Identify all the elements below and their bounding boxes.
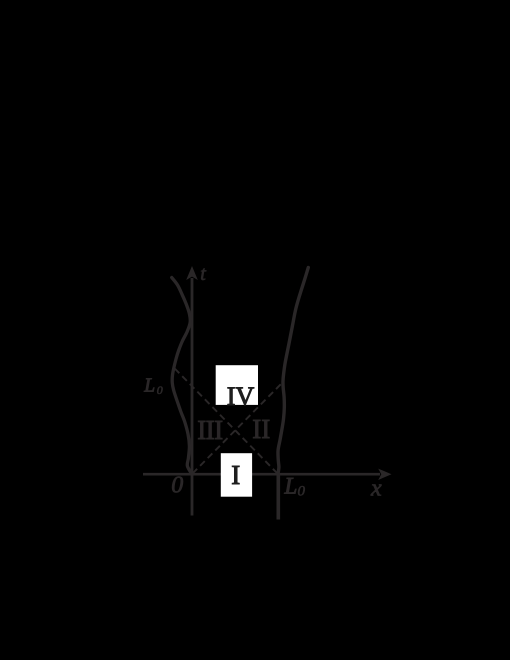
white box behind I (221, 453, 252, 497)
svg-text:0: 0 (298, 484, 306, 500)
svg-text:IV: IV (227, 382, 255, 411)
svg-text:0: 0 (157, 383, 163, 397)
svg-text:II: II (252, 414, 270, 444)
right worldline (wavy curve from L0) (278, 268, 308, 475)
wire: right end worldline tick below axis (276, 474, 280, 520)
x-axis (143, 469, 392, 480)
left worldline (wavy curve from origin) (172, 278, 193, 475)
dashed diagonal from origin to right worldline (193, 382, 284, 474)
dashed diagonal from L0 base to left worldline (175, 369, 278, 474)
svg-text:III: III (197, 415, 223, 445)
svg-text:0: 0 (171, 473, 183, 499)
t-axis (186, 266, 198, 516)
svg-text:L: L (284, 474, 298, 499)
white box behind IV (216, 365, 258, 405)
svg-text:L: L (143, 375, 155, 396)
svg-text:t: t (200, 263, 206, 285)
svg-text:x: x (370, 476, 382, 502)
svg-text:I: I (231, 460, 240, 490)
